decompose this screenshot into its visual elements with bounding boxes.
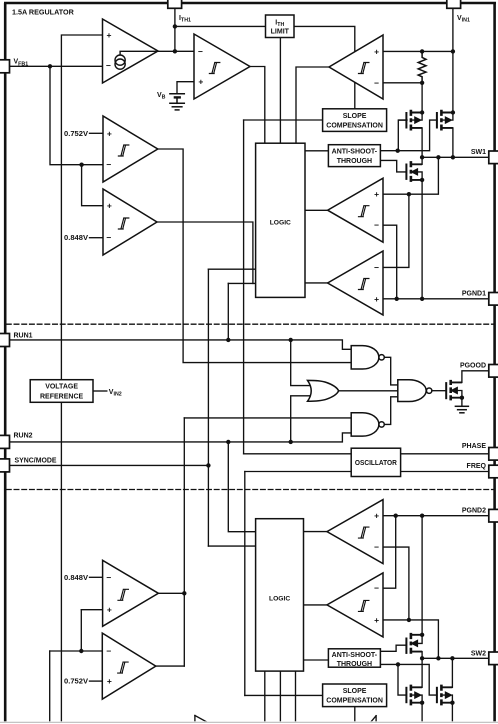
- svg-text:SYNC/MODE: SYNC/MODE: [15, 457, 57, 464]
- svg-text:ANTI-SHOOT-: ANTI-SHOOT-: [332, 149, 378, 156]
- svg-text:−: −: [198, 46, 203, 56]
- svg-text:0.752V: 0.752V: [64, 679, 88, 686]
- svg-text:PGOOD: PGOOD: [460, 362, 486, 369]
- svg-text:+: +: [374, 294, 379, 304]
- svg-text:VOLTAGE: VOLTAGE: [45, 384, 78, 391]
- svg-text:COMPENSATION: COMPENSATION: [326, 698, 383, 705]
- svg-text:REFERENCE: REFERENCE: [40, 394, 84, 401]
- svg-text:SLOPE: SLOPE: [343, 688, 367, 695]
- svg-text:+: +: [374, 511, 379, 521]
- svg-text:+: +: [198, 77, 203, 87]
- svg-text:+: +: [107, 605, 112, 615]
- svg-text:RUN2: RUN2: [14, 432, 33, 439]
- svg-text:−: −: [106, 646, 111, 656]
- svg-text:0.848V: 0.848V: [64, 575, 88, 582]
- svg-text:−: −: [374, 78, 379, 88]
- svg-text:PHASE: PHASE: [462, 443, 486, 450]
- svg-text:ANTI-SHOOT-: ANTI-SHOOT-: [332, 652, 378, 659]
- svg-text:+: +: [374, 46, 379, 56]
- svg-text:COMPENSATION: COMPENSATION: [326, 122, 383, 129]
- svg-text:−: −: [106, 572, 111, 582]
- svg-text:+: +: [107, 128, 112, 138]
- svg-text:SW1: SW1: [471, 149, 486, 156]
- svg-text:PGND1: PGND1: [462, 290, 486, 297]
- svg-text:+: +: [107, 30, 112, 40]
- svg-text:+: +: [107, 201, 112, 211]
- svg-text:SW2: SW2: [471, 650, 486, 657]
- svg-text:OSCILLATOR: OSCILLATOR: [355, 460, 397, 467]
- svg-text:−: −: [374, 583, 379, 593]
- svg-text:+: +: [374, 189, 379, 199]
- svg-text:LOGIC: LOGIC: [270, 220, 291, 227]
- svg-text:−: −: [374, 262, 379, 272]
- svg-text:THROUGH: THROUGH: [337, 158, 372, 165]
- svg-text:SLOPE: SLOPE: [343, 113, 367, 120]
- svg-text:−: −: [106, 233, 111, 243]
- svg-text:−: −: [374, 220, 379, 230]
- svg-text:LIMIT: LIMIT: [271, 29, 290, 36]
- svg-text:THROUGH: THROUGH: [337, 661, 372, 668]
- svg-text:0.752V: 0.752V: [64, 131, 88, 138]
- svg-text:+: +: [107, 676, 112, 686]
- svg-text:RUN1: RUN1: [14, 332, 33, 339]
- svg-text:0.848V: 0.848V: [64, 235, 88, 242]
- svg-text:−: −: [374, 542, 379, 552]
- svg-text:−: −: [106, 61, 111, 71]
- svg-text:LOGIC: LOGIC: [269, 596, 290, 603]
- svg-text:+: +: [374, 615, 379, 625]
- svg-text:1.5A REGULATOR: 1.5A REGULATOR: [12, 8, 75, 17]
- svg-text:−: −: [106, 160, 111, 170]
- svg-text:FREQ: FREQ: [467, 463, 487, 470]
- svg-text:PGND2: PGND2: [462, 507, 486, 514]
